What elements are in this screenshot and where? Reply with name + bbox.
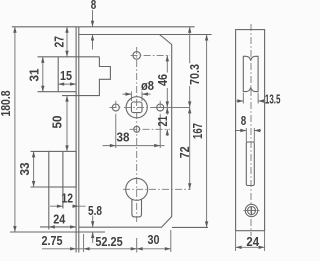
- svg-text:13.5: 13.5: [265, 92, 281, 107]
- svg-text:27: 27: [52, 36, 67, 48]
- svg-text:8: 8: [91, 0, 97, 12]
- svg-text:46: 46: [155, 74, 170, 86]
- svg-text:24: 24: [53, 211, 66, 226]
- svg-text:30: 30: [148, 232, 160, 247]
- svg-text:15: 15: [60, 68, 72, 83]
- svg-text:33: 33: [17, 163, 32, 176]
- svg-text:31: 31: [26, 69, 41, 82]
- svg-text:5.8: 5.8: [88, 203, 102, 218]
- svg-text:8: 8: [241, 113, 247, 128]
- svg-text:38: 38: [117, 130, 130, 145]
- svg-text:24: 24: [246, 234, 259, 249]
- svg-text:ø8: ø8: [141, 78, 154, 93]
- svg-text:50: 50: [50, 116, 65, 129]
- svg-text:52.25: 52.25: [95, 234, 122, 249]
- svg-text:12: 12: [62, 191, 74, 206]
- svg-text:167: 167: [190, 123, 205, 139]
- svg-text:72: 72: [177, 146, 192, 158]
- svg-text:70.3: 70.3: [187, 64, 202, 85]
- svg-text:180.8: 180.8: [0, 91, 13, 117]
- svg-text:2.75: 2.75: [42, 233, 63, 248]
- svg-text:21: 21: [155, 116, 170, 127]
